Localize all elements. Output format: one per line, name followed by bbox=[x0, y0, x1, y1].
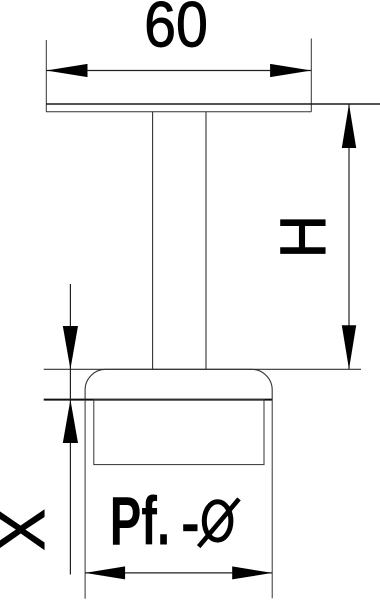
top plate top line (also H dimension top extension) bbox=[46, 103, 380, 105]
stem right line bbox=[205, 112, 207, 370]
svg-text:Pf.: Pf. bbox=[110, 481, 170, 559]
dimension text 60 bbox=[144, 0, 208, 60]
arrowhead up to collar line (X dimension) bbox=[63, 400, 78, 443]
body right edge bbox=[271, 400, 273, 599]
arrowhead down of H dimension bbox=[342, 325, 356, 369]
svg-text:H: H bbox=[268, 215, 339, 258]
dimension text X (rotated) bbox=[0, 509, 58, 551]
dimension text Pf. bbox=[110, 481, 170, 559]
diameter symbol ellipse bbox=[204, 502, 231, 540]
svg-text:X: X bbox=[0, 509, 58, 551]
thick collar line (dome bottom, also X bottom extension) bbox=[44, 399, 273, 401]
diameter symbol slash bbox=[199, 499, 239, 547]
Pf diameter dimension line bbox=[85, 572, 272, 574]
arrowhead right of dimension 60 bbox=[270, 64, 311, 77]
inner rectangle bbox=[94, 400, 264, 465]
dome top line (body top, also X top extension and H bottom extension) bbox=[44, 368, 361, 370]
stem left line bbox=[152, 112, 154, 370]
arrowhead left (Pf dimension) bbox=[85, 566, 125, 579]
svg-text:60: 60 bbox=[144, 0, 208, 60]
arrowhead right (Pf dimension) bbox=[232, 566, 272, 579]
arrowhead down to dome top (X dimension) bbox=[63, 326, 78, 369]
dome outline with rounded shoulders bbox=[85, 369, 272, 399]
arrowhead up of H dimension bbox=[342, 104, 356, 148]
body left edge bbox=[84, 400, 86, 599]
extension line left of 60 bbox=[45, 40, 47, 112]
X dimension line bbox=[69, 284, 71, 575]
dimension text H (rotated) bbox=[268, 215, 339, 258]
dimension line 60 bbox=[46, 70, 311, 72]
arrowhead left of dimension 60 bbox=[46, 64, 87, 77]
hyphen of Pf.-Ø bbox=[183, 524, 197, 531]
extension line right of 60 bbox=[310, 39, 312, 112]
H dimension line bbox=[348, 104, 350, 369]
top plate bottom line bbox=[46, 111, 311, 113]
